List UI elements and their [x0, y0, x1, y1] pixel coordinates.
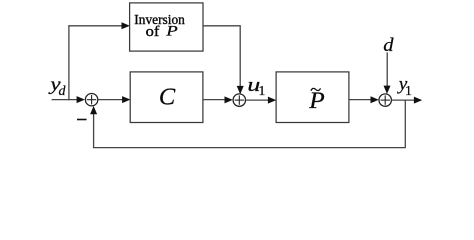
block "Inversion of P" [130, 3, 203, 51]
wire d into S3 (from top) [384, 52, 391, 94]
wire branch up from y_d line [68, 26, 70, 100]
svg-text:1: 1 [258, 84, 265, 99]
svg-text:1: 1 [405, 83, 412, 98]
wire into Inversion block [68, 22, 130, 29]
svg-text:d: d [383, 36, 394, 56]
wire S3 to y_1 output [392, 97, 423, 104]
summing junction S2 [233, 94, 245, 106]
svg-text:P: P [165, 23, 178, 39]
summing junction S1 [85, 94, 97, 106]
label d [383, 36, 394, 56]
wire feedback branch down from output [404, 100, 406, 148]
wire y_d input to S1 [52, 96, 85, 103]
label y_d [48, 75, 66, 99]
wire P-tilde to S3 [349, 96, 379, 103]
label y_1 [397, 74, 412, 98]
wire Inversion block output (right, then down) [203, 26, 244, 94]
label u_1 [247, 74, 265, 99]
block C (controller) [130, 72, 203, 123]
svg-text:C: C [159, 83, 176, 110]
svg-text:of: of [146, 24, 161, 40]
wire C to S2 [203, 96, 233, 103]
wire S2 to P-tilde [246, 97, 276, 104]
wire feedback up into S1 [90, 106, 97, 148]
wire S1 to C [98, 96, 131, 103]
minus sign at S1 feedback [77, 119, 87, 121]
summing junction S3 [379, 94, 391, 106]
wire feedback bottom run [93, 147, 406, 149]
svg-text:P: P [308, 88, 325, 114]
block P-tilde (plant) [276, 72, 349, 123]
svg-text:d: d [59, 84, 67, 99]
